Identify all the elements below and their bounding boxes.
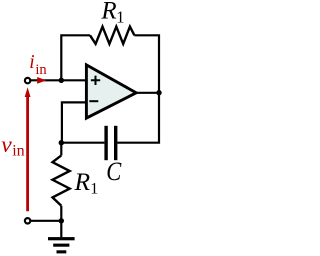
resistor R1 (bottom, vertical) (53, 155, 70, 205)
svg-text:in: in (35, 62, 47, 78)
op-amp U1 (86, 65, 136, 118)
wire: op-amp output to output node (136, 92, 159, 94)
svg-text:i: i (29, 52, 34, 73)
node C junction (59, 218, 64, 223)
ground (48, 237, 75, 253)
input terminal (bottom) (25, 218, 30, 223)
wire: resistor to right rail, down to output node (134, 35, 159, 92)
wire: node C to ground (60, 221, 62, 237)
op-amp - pin symbol (89, 100, 98, 102)
svg-text:1: 1 (116, 8, 124, 27)
node A junction (59, 78, 64, 83)
wire: right rail output node down to capacitor row (117, 93, 159, 143)
svg-text:in: in (12, 143, 24, 160)
op-amp + pin symbol (91, 76, 100, 85)
label R1 (bottom) (74, 167, 99, 198)
output node junction (156, 90, 161, 95)
label v_in (1, 132, 24, 159)
v_in arrow (25, 87, 31, 211)
node B junction (59, 140, 64, 145)
wire: inverting input to corner and down to node B (62, 102, 87, 142)
label i_in (29, 52, 47, 78)
svg-text:R: R (74, 167, 91, 196)
svg-text:R: R (100, 0, 116, 24)
wire: node A up to top feedback rail (61, 35, 90, 80)
wire: bottom terminal to node C (28, 220, 62, 222)
svg-text:v: v (1, 132, 12, 158)
i_in arrow (37, 77, 46, 84)
svg-text:1: 1 (90, 181, 98, 198)
wire: resistor bottom to node C (60, 206, 62, 221)
label R1 (top) (100, 0, 124, 27)
resistor R1 (top feedback) (90, 27, 134, 44)
input terminal (top) (25, 78, 30, 83)
wire: input terminal to node A (+ input row) (28, 79, 87, 81)
svg-text:C: C (106, 157, 122, 186)
capacitor C (104, 126, 117, 160)
wire: node B to capacitor left plate (61, 142, 104, 144)
wire: node B down to resistor R1 (bottom) (60, 143, 62, 156)
